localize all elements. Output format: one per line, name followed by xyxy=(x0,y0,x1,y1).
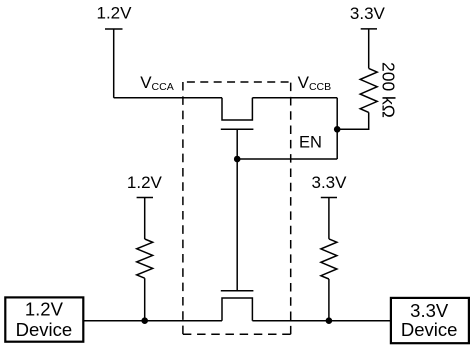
supply 3.3V (top right) xyxy=(350,4,386,69)
supply 1.2V (top left VCCA source) xyxy=(97,4,133,98)
svg-text:3.3V: 3.3V xyxy=(350,4,386,23)
node gate junction xyxy=(234,156,241,163)
resistor R1 200 kOhm xyxy=(360,62,398,118)
svg-text:EN: EN xyxy=(299,133,322,151)
wire gate net vertical xyxy=(236,159,238,291)
wire R2 to rail xyxy=(144,278,146,321)
IC boundary dashed box xyxy=(183,82,291,334)
svg-text:Device: Device xyxy=(401,319,458,340)
supply 1.2V (middle pull-up source) xyxy=(127,173,163,239)
transistor Q2 (bottom pass FET) xyxy=(221,291,254,321)
wire VCCA rail xyxy=(114,97,222,99)
svg-text:3.3V: 3.3V xyxy=(410,300,449,321)
device box 1.2V Device xyxy=(5,297,83,341)
device box 3.3V Device xyxy=(391,298,469,343)
wire bottom rail right xyxy=(252,320,391,322)
resistor R3 (3.3V side pull-up) xyxy=(321,239,337,279)
svg-text:1.2V: 1.2V xyxy=(97,4,133,23)
svg-text:200 kΩ: 200 kΩ xyxy=(379,62,399,118)
node EN pull-up junction xyxy=(334,126,341,133)
node 1.2V side junction xyxy=(141,317,148,324)
svg-text:Device: Device xyxy=(16,319,73,340)
resistor R2 (1.2V side pull-up) xyxy=(137,239,153,278)
wire VCCB rail xyxy=(252,97,337,99)
wire bottom rail left xyxy=(83,320,222,322)
svg-text:3.3V: 3.3V xyxy=(312,173,348,192)
node 3.3V side junction xyxy=(326,317,333,324)
transistor Q1 (top pass FET) xyxy=(221,98,254,159)
wire VCCB to EN vertical xyxy=(336,98,338,159)
wire R1 to EN node xyxy=(337,112,369,129)
supply 3.3V (middle pull-up source) xyxy=(312,173,348,239)
wire R3 to rail xyxy=(328,279,330,321)
svg-text:1.2V: 1.2V xyxy=(25,299,64,320)
svg-text:1.2V: 1.2V xyxy=(127,173,163,192)
wire EN horizontal xyxy=(237,158,337,160)
